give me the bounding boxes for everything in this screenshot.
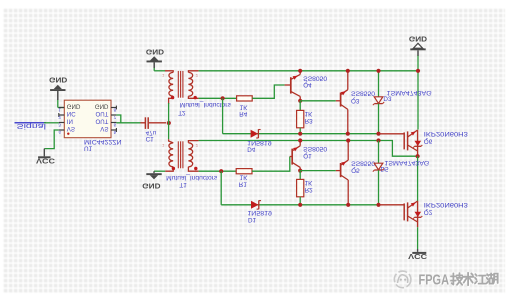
svg-text:Mutual_Inductors: Mutual_Inductors bbox=[166, 174, 217, 181]
svg-text:1K: 1K bbox=[305, 179, 314, 186]
svg-text:D5: D5 bbox=[381, 165, 390, 172]
svg-text:C1: C1 bbox=[146, 135, 155, 142]
svg-text:SS8550: SS8550 bbox=[351, 90, 376, 97]
svg-text:Q1: Q1 bbox=[303, 152, 312, 159]
svg-text:OUT: OUT bbox=[96, 117, 109, 124]
svg-text:1SMA4743AG: 1SMA4743AG bbox=[387, 89, 432, 96]
svg-text:R4: R4 bbox=[239, 110, 248, 117]
svg-text:GND: GND bbox=[67, 102, 81, 109]
svg-text:VS: VS bbox=[100, 125, 108, 132]
svg-text:GND: GND bbox=[142, 181, 160, 190]
svg-text:GND: GND bbox=[146, 47, 164, 56]
svg-text:GND: GND bbox=[95, 102, 109, 109]
svg-text:GND: GND bbox=[49, 75, 67, 84]
svg-text:IN: IN bbox=[67, 117, 73, 124]
svg-text:MIC4422ZN: MIC4422ZN bbox=[84, 138, 122, 145]
svg-text:Q4: Q4 bbox=[303, 81, 312, 88]
svg-text:NC: NC bbox=[67, 110, 76, 117]
svg-text:1N5819: 1N5819 bbox=[247, 209, 272, 216]
svg-text:GND: GND bbox=[409, 34, 427, 43]
svg-text:D3: D3 bbox=[383, 95, 392, 102]
svg-text:1K: 1K bbox=[305, 110, 314, 117]
svg-text:Q2: Q2 bbox=[424, 208, 433, 215]
svg-text:R3: R3 bbox=[305, 117, 314, 124]
svg-text:R2: R2 bbox=[305, 186, 314, 193]
svg-text:1K: 1K bbox=[240, 174, 249, 181]
svg-text:U1: U1 bbox=[84, 144, 93, 151]
svg-text:IKP20N60H3: IKP20N60H3 bbox=[424, 201, 469, 208]
svg-text:SS8550: SS8550 bbox=[351, 159, 376, 166]
svg-text:Q5: Q5 bbox=[351, 167, 360, 174]
svg-text:Q6: Q6 bbox=[424, 137, 433, 144]
svg-text:T2: T2 bbox=[178, 109, 186, 116]
svg-text:1SMA4743AG: 1SMA4743AG bbox=[384, 159, 429, 166]
svg-text:SS8050: SS8050 bbox=[303, 145, 328, 152]
svg-text:47u: 47u bbox=[146, 129, 157, 136]
svg-text:R1: R1 bbox=[239, 180, 248, 187]
svg-text:1K: 1K bbox=[240, 104, 249, 111]
svg-text:SS8050: SS8050 bbox=[303, 74, 328, 81]
svg-text:VS: VS bbox=[67, 125, 75, 132]
svg-text:VCC: VCC bbox=[408, 252, 427, 261]
svg-text:1N5819: 1N5819 bbox=[247, 139, 272, 146]
svg-text:IKP20N60H3: IKP20N60H3 bbox=[424, 130, 469, 137]
svg-text:D4: D4 bbox=[247, 146, 256, 153]
svg-text:VCC: VCC bbox=[36, 157, 55, 166]
svg-text:FPGA: FPGA bbox=[419, 272, 450, 288]
svg-text:T1: T1 bbox=[179, 181, 187, 188]
svg-text:D1: D1 bbox=[248, 216, 257, 223]
svg-text:Q3: Q3 bbox=[351, 97, 360, 104]
svg-text:Signal: Signal bbox=[17, 122, 47, 129]
svg-text:OUT: OUT bbox=[96, 110, 109, 117]
